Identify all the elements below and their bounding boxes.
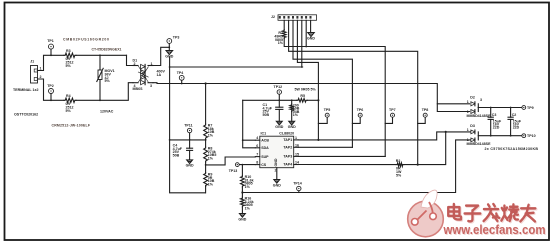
varistor MOV1 xyxy=(97,55,115,100)
svg-text:TP2: TP2 xyxy=(47,84,54,88)
dual diode D3 xyxy=(467,124,492,146)
svg-text:1%: 1% xyxy=(293,113,299,117)
test point TP5 xyxy=(318,108,330,123)
capacitor C2 xyxy=(508,108,522,136)
wire J2 pin7 down xyxy=(305,20,307,46)
svg-text:TP14: TP14 xyxy=(293,181,302,185)
svg-text:TP5: TP5 xyxy=(324,108,331,112)
svg-text:5%: 5% xyxy=(66,109,72,113)
svg-text:R2: R2 xyxy=(396,159,401,163)
ground at C4 xyxy=(187,160,193,164)
svg-text:1%: 1% xyxy=(208,182,214,186)
ground at R16 xyxy=(240,214,246,218)
svg-text:GND: GND xyxy=(275,125,283,129)
svg-text:120VAC: 120VAC xyxy=(100,110,114,114)
capacitor C1 xyxy=(263,100,283,121)
svg-text:TAP1: TAP1 xyxy=(283,138,292,142)
op-amp U1 IC1 CL88020 xyxy=(255,132,299,173)
wire J2 pin4 to rail y59.2 xyxy=(293,20,352,147)
svg-text:CT-05D820NGEX1: CT-05D820NGEX1 xyxy=(92,48,122,52)
wire TAP2 stub xyxy=(298,146,352,148)
svg-text:R3: R3 xyxy=(66,49,71,53)
diode bridge D1 xyxy=(133,59,166,91)
svg-text:TP3: TP3 xyxy=(173,36,180,40)
test point TP8 xyxy=(418,108,429,123)
wire TAP1 line y139.9 xyxy=(298,132,470,140)
svg-text:TP11: TP11 xyxy=(184,123,192,127)
ground at J2 pin8 xyxy=(307,20,315,40)
wire D2 to TP9 xyxy=(477,106,479,108)
connector J1 xyxy=(30,60,41,84)
svg-text:ACB: ACB xyxy=(261,138,269,142)
svg-text:C3: C3 xyxy=(492,113,497,117)
test point TP11 xyxy=(184,123,192,140)
svg-text:TP6: TP6 xyxy=(357,108,364,112)
wire D1 plus line y67 xyxy=(170,57,303,67)
wire TAP3 stub xyxy=(298,155,385,157)
test point TP14 xyxy=(293,181,302,192)
svg-text:CL88020: CL88020 xyxy=(279,132,294,136)
ground at R6 xyxy=(289,121,295,125)
svg-text:16: 16 xyxy=(295,143,299,147)
svg-text:TAP2: TAP2 xyxy=(283,146,292,150)
svg-text:TP13: TP13 xyxy=(229,169,238,173)
svg-text:3: 3 xyxy=(480,98,482,102)
svg-text:50B: 50B xyxy=(173,153,180,157)
test point TP2 xyxy=(47,84,54,101)
svg-text:22D: 22D xyxy=(513,126,520,130)
svg-text:MMBD4148SE: MMBD4148SE xyxy=(467,142,492,146)
svg-text:3: 3 xyxy=(150,84,152,88)
svg-text:1%: 1% xyxy=(245,206,251,210)
resistor R5 xyxy=(295,88,317,103)
resistor R6 xyxy=(290,100,300,121)
svg-text:GND: GND xyxy=(274,158,278,166)
svg-text:C2: C2 xyxy=(512,113,517,117)
ground at C1 xyxy=(276,121,282,125)
svg-text:1%: 1% xyxy=(208,133,214,137)
svg-text:1%: 1% xyxy=(245,185,251,189)
test point TP3 xyxy=(167,36,179,48)
test point TP13 xyxy=(229,163,240,173)
svg-text:GND: GND xyxy=(273,183,281,187)
svg-text:R5: R5 xyxy=(300,94,305,98)
connector J2 xyxy=(271,15,317,21)
svg-text:1A: 1A xyxy=(157,73,162,77)
svg-text:CRM2512-JW-100ELF: CRM2512-JW-100ELF xyxy=(52,124,91,128)
wire J2 pin3 to rail y51.3 xyxy=(289,20,418,164)
test point TP6 xyxy=(352,108,363,123)
test point TP9 xyxy=(522,106,534,110)
svg-text:SUP: SUP xyxy=(261,155,269,159)
resistor R16 xyxy=(241,193,254,214)
resistor R3 xyxy=(64,49,76,68)
svg-text:1%: 1% xyxy=(278,41,284,45)
wire left loop vertical x169.6 xyxy=(170,67,206,193)
svg-text:GND: GND xyxy=(288,125,296,129)
resistor R10 xyxy=(241,165,254,193)
svg-text:TP12: TP12 xyxy=(274,85,283,89)
svg-text:IC1: IC1 xyxy=(261,132,267,136)
svg-text:SDA: SDA xyxy=(261,146,269,150)
svg-text:D3: D3 xyxy=(470,124,475,128)
svg-text:TP4: TP4 xyxy=(177,71,184,75)
svg-text:15: 15 xyxy=(295,152,299,156)
wire CS line y164.6 xyxy=(237,164,255,166)
svg-text:CMB02FUS160GR200: CMB02FUS160GR200 xyxy=(63,38,109,42)
ground at TP3 xyxy=(165,47,173,58)
svg-text:1: 1 xyxy=(467,100,469,104)
resistor R7 xyxy=(204,84,215,140)
svg-text:TAP4: TAP4 xyxy=(283,163,292,167)
svg-text:CS: CS xyxy=(261,163,267,167)
capacitor C4 xyxy=(173,140,193,160)
wire J2 pin5 to V1 xyxy=(297,20,318,140)
svg-text:50B: 50B xyxy=(263,113,270,117)
svg-text:7: 7 xyxy=(256,153,258,157)
wire D1 pin3 line y83.5 xyxy=(153,83,470,104)
svg-text:4: 4 xyxy=(256,136,258,140)
svg-text:6: 6 xyxy=(256,144,258,148)
svg-text:8: 8 xyxy=(256,161,258,165)
wire IC ACB to VIN rail xyxy=(243,100,256,140)
watermark text dianzifashaoyou xyxy=(448,204,536,222)
wire J1 pin2 to R4 rail xyxy=(37,79,64,100)
svg-text:5%: 5% xyxy=(66,64,72,68)
wire TAP4 R2 rail y164.6 xyxy=(298,164,396,166)
svg-text:J2: J2 xyxy=(271,15,275,19)
watermark logo circle xyxy=(408,190,444,237)
wire R3 to D1 pin2 xyxy=(76,54,127,56)
wire R1 to rail y46.5 xyxy=(284,39,385,157)
dual diode D2 xyxy=(437,96,491,118)
svg-text:GND: GND xyxy=(186,164,194,168)
svg-text:GND: GND xyxy=(307,37,315,41)
test point TP7 xyxy=(385,108,395,123)
svg-text:TP7: TP7 xyxy=(389,108,396,112)
svg-text:5%: 5% xyxy=(396,173,402,177)
resistor R8 xyxy=(204,140,217,165)
svg-text:1: 1 xyxy=(40,67,42,71)
wire J2 pin2 to R1 xyxy=(283,20,285,29)
svg-text:5%: 5% xyxy=(105,79,111,83)
svg-text:GND: GND xyxy=(238,217,246,221)
resistor R4 xyxy=(64,94,76,113)
wire J2 pin6 to D1 line xyxy=(301,20,303,67)
svg-text:MB6S: MB6S xyxy=(133,87,144,91)
svg-text:D2: D2 xyxy=(470,96,475,100)
svg-text:TP9: TP9 xyxy=(527,106,534,110)
wire J1 pin1 to R3 rail xyxy=(37,55,64,70)
svg-text:TP1: TP1 xyxy=(47,39,54,43)
ground at IC xyxy=(273,168,281,188)
wire R4 to D1 pin4 xyxy=(76,83,133,101)
capacitor C3 xyxy=(488,108,502,136)
wire IC SDA stub xyxy=(243,140,256,148)
resistor R9 xyxy=(204,165,215,193)
svg-text:OSTTC020162: OSTTC020162 xyxy=(14,113,38,117)
svg-text:MMBD4148SE: MMBD4148SE xyxy=(467,114,492,118)
resistor R2 xyxy=(396,159,404,177)
svg-text:22D: 22D xyxy=(493,126,500,130)
wire chain to SUP pin xyxy=(206,157,256,165)
test point TP1 xyxy=(47,39,54,55)
svg-text:TP10: TP10 xyxy=(527,134,536,138)
test point TP12 xyxy=(274,85,283,100)
wire TP11 link y139.9 xyxy=(170,139,206,141)
svg-text:TAP3: TAP3 xyxy=(283,155,292,159)
test point TP10 xyxy=(522,134,536,138)
wire VIN rail y100 xyxy=(243,99,297,101)
svg-text:1: 1 xyxy=(295,136,297,140)
svg-text:www.elecfans.com: www.elecfans.com xyxy=(443,223,546,237)
svg-text:TERMINAL 1x2: TERMINAL 1x2 xyxy=(13,88,39,92)
wire bottom rail y192.5 xyxy=(242,140,470,193)
svg-text:14: 14 xyxy=(295,161,299,165)
svg-text:1%: 1% xyxy=(208,156,214,160)
svg-text:R4: R4 xyxy=(66,94,71,98)
svg-text:2x C5750X7S2A156M230KB: 2x C5750X7S2A156M230KB xyxy=(485,147,539,151)
svg-text:1: 1 xyxy=(467,128,469,132)
svg-text:5W 0R05 5%: 5W 0R05 5% xyxy=(295,88,317,92)
wire D1 pin1 to TP3 node xyxy=(153,47,169,65)
svg-text:2: 2 xyxy=(275,169,277,173)
svg-text:TP8: TP8 xyxy=(422,108,429,112)
wire D3 to TP10 xyxy=(478,135,521,137)
test point TP4 xyxy=(177,71,184,85)
svg-text:J1: J1 xyxy=(30,60,34,64)
resistor R1 xyxy=(274,30,286,46)
